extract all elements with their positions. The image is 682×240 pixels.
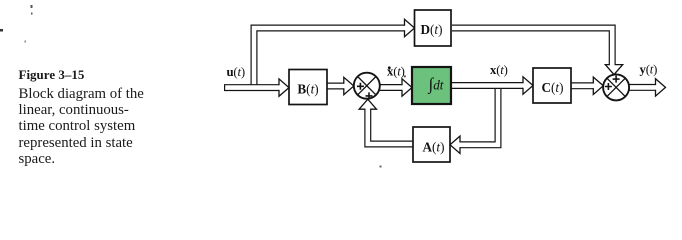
wire: C(t) output into summing junction S2	[570, 77, 603, 94]
wire: D(t) output across and down into summing junction S2	[451, 28, 623, 75]
wire: B(t) output into summing junction S1	[326, 77, 354, 94]
caption title: Figure 3-15	[19, 67, 85, 83]
svg-text:x(t): x(t)	[387, 64, 405, 78]
caption body text	[19, 86, 144, 167]
block A(t)	[413, 127, 450, 162]
svg-text:u(t): u(t)	[227, 65, 245, 79]
svg-text:y(t): y(t)	[640, 62, 658, 76]
wire: x(t) branch down and left into A(t)	[450, 86, 498, 154]
svg-text:B(t): B(t)	[297, 82, 318, 97]
wire: summing junction S1 output into integrator	[378, 79, 412, 96]
summing junction S1	[354, 73, 380, 100]
summing junction S2	[603, 74, 629, 100]
scan specks	[0, 5, 406, 168]
block D(t)	[415, 10, 452, 46]
svg-text:A(t): A(t)	[422, 140, 444, 155]
wire: branch from u(t) up and across to D(t)	[254, 19, 415, 89]
svg-text:C(t): C(t)	[541, 80, 563, 95]
wire: output y(t) from summing junction S2	[627, 79, 666, 96]
wire: integrator output x(t) into C(t)	[449, 77, 533, 94]
svg-text:∫dt: ∫dt	[428, 75, 444, 95]
svg-text:D(t): D(t)	[420, 22, 442, 37]
wire: input u(t) into B(t)	[224, 79, 289, 96]
block B(t)	[289, 70, 327, 105]
block integrator ∫dt (green)	[412, 67, 451, 104]
svg-text:x(t): x(t)	[490, 63, 508, 77]
wire: A(t) output left and up into summing junction S1	[359, 99, 414, 144]
label xdot(t)	[387, 64, 405, 78]
block C(t)	[533, 68, 571, 103]
